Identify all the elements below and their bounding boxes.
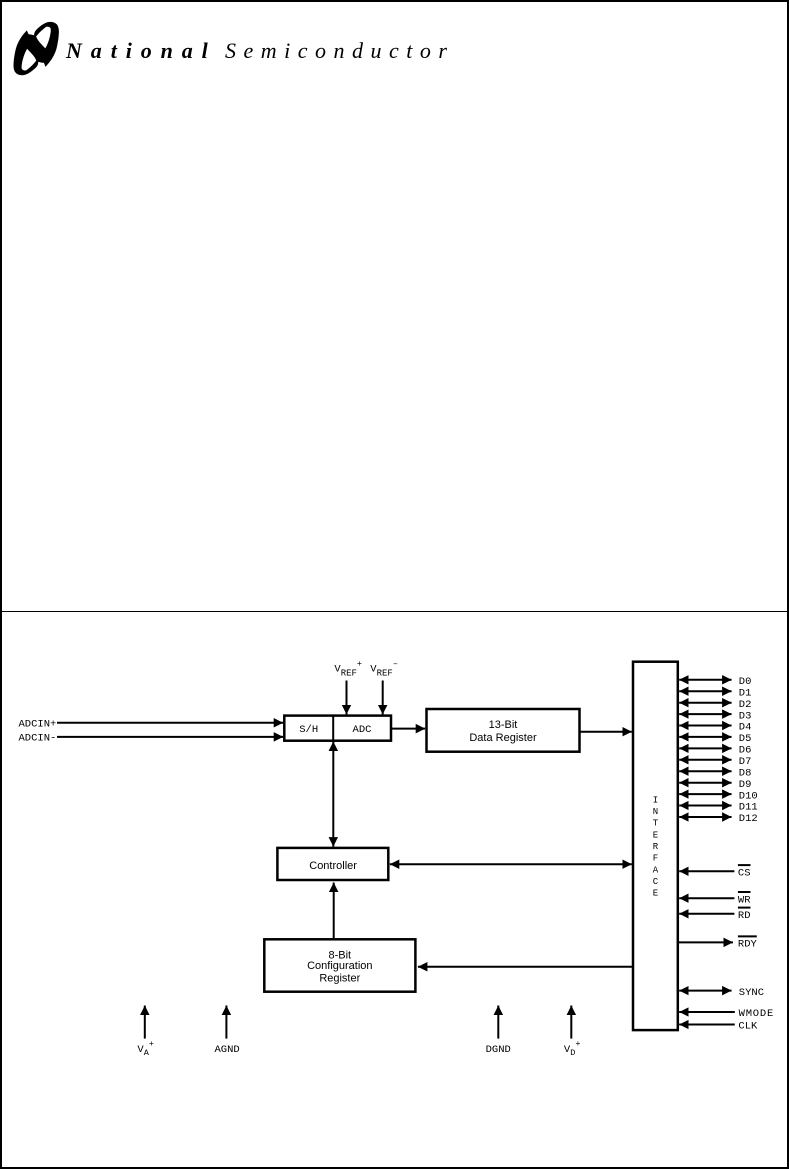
wire data register to interface [580, 731, 632, 733]
svg-text:R: R [653, 842, 659, 852]
wire WR into interface [679, 897, 734, 899]
block S/H + ADC box [284, 716, 391, 741]
svg-text:D0: D0 [739, 676, 752, 688]
svg-text:VA+: VA+ [137, 1039, 154, 1058]
svg-text:N: N [653, 807, 658, 817]
svg-text:D5: D5 [739, 733, 752, 745]
svg-text:D12: D12 [739, 813, 758, 825]
power AGND arrow [225, 1006, 227, 1039]
horizontal rule divider [0, 611, 789, 613]
svg-text:E: E [653, 889, 658, 899]
wire RDY out of interface [678, 941, 733, 943]
svg-text:D7: D7 [739, 756, 752, 768]
block Controller [277, 848, 388, 880]
label INTERFACE vertical [653, 795, 659, 898]
wire config register to controller [333, 883, 335, 940]
wire controller-interface bidirectional [390, 863, 632, 865]
wire CLK into interface [679, 1024, 735, 1026]
svg-text:CLK: CLK [738, 1021, 758, 1033]
data bus wire D2 bidirectional [679, 702, 731, 704]
svg-text:F: F [653, 854, 658, 864]
wire interface to config register [418, 966, 633, 968]
svg-text:SYNC: SYNC [739, 987, 764, 999]
svg-text:D9: D9 [739, 779, 752, 791]
svg-text:D1: D1 [739, 687, 752, 699]
svg-text:D10: D10 [739, 790, 758, 802]
svg-text:D2: D2 [739, 699, 752, 711]
data bus wire D11 bidirectional [679, 805, 731, 807]
svg-text:D8: D8 [739, 767, 752, 779]
wire WMODE into interface [679, 1011, 735, 1013]
svg-text:Controller: Controller [309, 860, 357, 872]
svg-text:CS: CS [738, 868, 751, 880]
svg-text:E: E [653, 830, 658, 840]
wire ADC to data register [391, 728, 425, 730]
data bus wire D1 bidirectional [679, 690, 731, 692]
svg-text:ADC: ADC [353, 724, 372, 736]
wire CS into interface [679, 870, 734, 872]
power DGND arrow [497, 1006, 499, 1039]
svg-text:AGND: AGND [215, 1044, 240, 1056]
wire ADCIN- into S/H [57, 736, 283, 738]
data bus wire D8 bidirectional [679, 770, 731, 772]
svg-text:D4: D4 [739, 722, 752, 734]
svg-text:Data Register: Data Register [469, 732, 537, 744]
svg-text:DGND: DGND [486, 1044, 511, 1056]
data bus wire D0 bidirectional [679, 679, 731, 681]
power VA+ arrow [144, 1006, 146, 1039]
block 8-bit configuration register [264, 939, 415, 991]
wire VREF+ down into ADC [346, 681, 348, 715]
svg-text:I: I [653, 795, 658, 805]
svg-text:VREF–: VREF– [370, 659, 398, 678]
svg-text:RDY: RDY [738, 939, 758, 951]
data bus wire D6 bidirectional [679, 747, 731, 749]
wire VREF- down into ADC [382, 681, 384, 715]
svg-text:VD+: VD+ [564, 1039, 581, 1058]
data bus wire D10 bidirectional [679, 793, 731, 795]
logo text: National [66, 40, 217, 62]
wire ADCIN+ into S/H [57, 722, 283, 724]
data bus wire D9 bidirectional [679, 782, 731, 784]
svg-text:13-Bit: 13-Bit [489, 719, 518, 731]
svg-text:ADCIN-: ADCIN- [19, 733, 57, 745]
svg-text:S/H: S/H [299, 724, 318, 736]
data bus wire D7 bidirectional [679, 759, 731, 761]
logo text: Semiconductor [225, 40, 454, 62]
data bus wire D5 bidirectional [679, 736, 731, 738]
svg-text:T: T [653, 819, 659, 829]
data bus wire D12 bidirectional [679, 816, 731, 818]
svg-text:RD: RD [738, 910, 751, 922]
svg-text:D6: D6 [739, 745, 752, 757]
wire SYNC bidirectional [679, 990, 731, 992]
svg-text:VREF+: VREF+ [334, 659, 362, 678]
svg-text:Configuration: Configuration [307, 960, 372, 972]
svg-text:A: A [653, 865, 659, 875]
svg-text:D11: D11 [739, 802, 758, 814]
svg-text:C: C [653, 877, 659, 887]
National Semiconductor logo swoosh [13, 20, 61, 77]
svg-text:WR: WR [738, 894, 751, 906]
wire ADC-controller vertical bidirectional [332, 742, 334, 847]
wire RD into interface [679, 913, 734, 915]
svg-text:D3: D3 [739, 710, 752, 722]
power VD+ arrow [570, 1006, 572, 1039]
svg-text:WMODE: WMODE [739, 1008, 775, 1020]
data bus wire D4 bidirectional [679, 725, 731, 727]
divider between S/H and ADC [332, 716, 334, 741]
svg-text:ADCIN+: ADCIN+ [19, 719, 57, 731]
svg-text:Register: Register [319, 973, 360, 985]
data bus wire D3 bidirectional [679, 713, 731, 715]
block 13-bit data register [427, 709, 580, 752]
block INTERFACE [633, 662, 678, 1030]
